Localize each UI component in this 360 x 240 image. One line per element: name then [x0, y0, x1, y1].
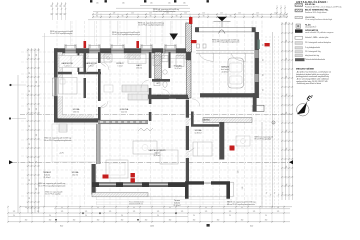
svg-text:90: 90	[56, 5, 58, 7]
svg-text:50 cm PF-01 aquaflopiramigloma: 50 cm PF-01 aquaflopiramiglomasite	[38, 184, 66, 187]
svg-text:90: 90	[51, 5, 53, 7]
svg-text:90: 90	[283, 16, 285, 18]
left wall window	[51, 78, 53, 96]
svg-text:90: 90	[263, 44, 265, 46]
svg-text:90: 90	[29, 125, 31, 127]
svg-text:8,10: 8,10	[60, 226, 63, 228]
svg-text:25 í hőszigetelt zsaluzó beépí: 25 í hőszigetelt zsaluzó beépítve	[305, 41, 331, 44]
svg-text:21,44 m2: 21,44 m2	[43, 177, 50, 179]
svg-text:125: 125	[220, 13, 223, 15]
right dimension lines	[272, 32, 274, 208]
svg-text:125: 125	[36, 161, 38, 164]
svg-text:125: 125	[256, 13, 259, 15]
section line A-A	[12, 161, 290, 163]
carport post left	[195, 27, 199, 32]
svg-text:90: 90	[96, 16, 98, 18]
svg-text:KÜLSŐ FAL: KÜLSŐ FAL	[305, 3, 316, 6]
interior wall bath divider x170	[169, 52, 171, 68]
wc room wall y79	[152, 79, 170, 82]
svg-text:FA-ÁB.: FA-ÁB.	[305, 24, 311, 27]
svg-text:360: 360	[73, 220, 76, 222]
stairs left wing	[59, 124, 67, 132]
svg-text:360: 360	[241, 220, 244, 222]
svg-text:90: 90	[263, 74, 265, 76]
svg-text:13,9 m2: 13,9 m2	[73, 111, 79, 113]
bed room1	[59, 78, 78, 95]
svg-text:- Felelősség nem érhető el oki: - Felelősség nem érhető el okirat	[296, 82, 322, 85]
svg-text:90: 90	[29, 72, 31, 74]
svg-text:125: 125	[113, 13, 116, 15]
entry side posts	[197, 44, 200, 48]
svg-text:11,2 m2: 11,2 m2	[121, 111, 127, 113]
svg-text:90: 90	[265, 215, 267, 217]
interior wall garderob divider	[78, 52, 80, 72]
svg-text:WC: WC	[156, 83, 160, 85]
red column marker 1	[84, 41, 87, 48]
svg-text:60: 60	[133, 207, 135, 209]
terrace right edge lines	[230, 181, 234, 183]
red column marker 2	[136, 41, 139, 48]
svg-text:H8 cm PF-01 aquaflopir: H8 cm PF-01 aquaflopir	[255, 139, 272, 141]
red badge top	[191, 40, 197, 43]
svg-text:90: 90	[257, 16, 259, 18]
svg-text:10 cm PF-01 aquaflopiramigloma: 10 cm PF-01 aquaflopiramiglomasite	[212, 41, 240, 44]
kitchen small box	[104, 85, 113, 92]
svg-text:35,96 m2: 35,96 m2	[153, 155, 160, 157]
sofa living	[106, 160, 128, 178]
svg-text:125: 125	[36, 188, 38, 191]
red marker vertical bottom	[131, 173, 135, 177]
roof slope arrow top	[170, 34, 179, 41]
roof overhang line top	[42, 36, 190, 38]
svg-text:21,44 m2: 21,44 m2	[173, 205, 180, 207]
svg-text:90: 90	[230, 16, 232, 18]
svg-text:MEGJEGYZÉSEK: MEGJEGYZÉSEK	[296, 68, 315, 71]
north compass	[297, 94, 313, 116]
bottom tiny arrows	[82, 213, 84, 215]
svg-text:90: 90	[64, 13, 66, 15]
svg-text:14,37 m2: 14,37 m2	[174, 68, 181, 70]
vertical wall x221 bottom wing	[219, 122, 224, 160]
svg-text:90: 90	[286, 22, 288, 24]
solid vertical line x262 lower	[261, 122, 263, 208]
svg-text:125: 125	[277, 211, 280, 213]
top dimension lines	[93, 11, 190, 13]
svg-text:talaj tömörített rtg: talaj tömörített rtg	[305, 54, 319, 57]
interior wall vertical x84	[84, 52, 87, 72]
svg-text:125: 125	[36, 108, 38, 111]
svg-text:90: 90	[60, 5, 62, 7]
svg-text:5,2 m2: 5,2 m2	[64, 65, 69, 67]
entrance arrow	[217, 17, 227, 21]
svg-text:125: 125	[168, 2, 171, 4]
top grid label marks	[90, 0, 92, 2]
left small dots	[9, 84, 11, 86]
svg-text:60: 60	[241, 207, 243, 209]
svg-text:60: 60	[169, 207, 171, 209]
svg-text:360: 360	[97, 220, 100, 222]
svg-text:90: 90	[286, 40, 288, 42]
svg-text:360: 360	[49, 220, 52, 222]
section marker left	[9, 160, 13, 164]
interior wall vertical x149	[149, 52, 152, 78]
svg-text:Vakolat 1,5MM + vakolat júlia: Vakolat 1,5MM + vakolat júlia	[305, 36, 328, 39]
terrace deck lines	[96, 199, 232, 201]
svg-text:125: 125	[133, 211, 136, 213]
eave line left vertical	[44, 33, 46, 207]
dining table	[133, 141, 157, 154]
east wall living room x187	[186, 100, 189, 183]
grid circle marker C right	[272, 121, 275, 124]
right dimension ticks	[281, 23, 282, 24]
red badge bottom left	[103, 175, 109, 179]
rotated dim text columns top-left	[52, 2, 54, 20]
svg-text:12,36 m2: 12,36 m2	[194, 132, 201, 134]
door leaf east wall	[189, 116, 194, 120]
svg-text:90: 90	[176, 16, 178, 18]
svg-text:KAMRA: KAMRA	[202, 118, 210, 121]
bottom small dark mark	[207, 224, 210, 227]
svg-text:14,6 m2: 14,6 m2	[136, 67, 142, 69]
svg-text:90: 90	[13, 215, 15, 217]
wc fixtures	[154, 82, 160, 86]
vertical grid axes	[56, 21, 58, 207]
red chimney marker	[189, 17, 192, 24]
svg-text:125: 125	[253, 211, 256, 213]
door swing arcs	[101, 62, 109, 70]
svg-text:125: 125	[205, 211, 208, 213]
svg-text:125: 125	[61, 211, 64, 213]
living room south wall with glass doors	[92, 183, 186, 187]
svg-text:360: 360	[145, 220, 148, 222]
svg-text:90: 90	[85, 215, 87, 217]
svg-text:125: 125	[36, 134, 38, 137]
svg-text:360: 360	[217, 220, 220, 222]
living room west lower wall	[92, 164, 96, 195]
garage door swing arcs	[199, 53, 214, 61]
glass door between piers	[204, 181, 211, 183]
svg-text:125: 125	[202, 13, 205, 15]
svg-text:125: 125	[109, 211, 112, 213]
svg-text:90: 90	[286, 112, 288, 114]
svg-text:125: 125	[96, 13, 99, 15]
top wall inner insulation leaf	[57, 53, 186, 58]
svg-text:360: 360	[25, 220, 28, 222]
svg-text:90: 90	[49, 215, 51, 217]
svg-text:360: 360	[265, 220, 268, 222]
entry canopy arc	[219, 30, 226, 34]
svg-text:2 rtg hidegburkolat: 2 rtg hidegburkolat	[305, 46, 320, 49]
left dimension lines	[17, 75, 19, 213]
svg-text:90: 90	[29, 54, 31, 56]
svg-text:60: 60	[205, 207, 207, 209]
svg-text:360: 360	[121, 220, 124, 222]
bed right wing szoba	[193, 142, 212, 156]
svg-text:90: 90	[122, 16, 124, 18]
svg-text:125: 125	[131, 13, 134, 15]
svg-text:125: 125	[150, 2, 153, 4]
svg-text:90: 90	[29, 161, 31, 163]
svg-text:90: 90	[286, 58, 288, 60]
left wall inner leaf	[58, 52, 63, 118]
svg-text:90: 90	[29, 143, 31, 145]
shower bath corner	[104, 54, 112, 62]
svg-text:125: 125	[181, 211, 184, 213]
door leaves x98 wall	[101, 63, 106, 67]
svg-text:360: 360	[193, 220, 196, 222]
hatched wall column bath x155	[155, 52, 162, 79]
svg-text:H8 cm PF-01 aquaflopiramigloma: H8 cm PF-01 aquaflopiramiglomasite	[227, 203, 255, 206]
bath fixtures	[153, 56, 160, 66]
living room west glazed wall	[97, 124, 101, 164]
bottom dimension lines	[20, 206, 292, 208]
svg-text:125: 125	[122, 2, 125, 4]
svg-text:90: 90	[29, 179, 31, 181]
left wing bottom wall	[54, 118, 98, 122]
terrace pier L right	[211, 181, 230, 199]
svg-text:90: 90	[29, 108, 31, 110]
window axis verticals above wall	[70, 21, 72, 46]
right dashed reference lines	[265, 36, 267, 208]
terrace edge band	[92, 193, 148, 197]
svg-text:60: 60	[25, 207, 27, 209]
svg-text:90: 90	[64, 5, 66, 7]
svg-text:90: 90	[60, 13, 62, 15]
svg-text:6,10: 6,10	[250, 226, 253, 228]
svg-text:360: 360	[169, 220, 172, 222]
outdoor table right wing	[236, 136, 250, 146]
svg-text:125: 125	[85, 211, 88, 213]
svg-text:90: 90	[150, 16, 152, 18]
svg-text:125: 125	[36, 54, 38, 57]
garage left wall chimney strip	[186, 23, 192, 52]
garage interior door track lines	[198, 54, 200, 93]
svg-text:90: 90	[286, 166, 288, 168]
red badge right	[265, 43, 270, 46]
svg-text:90: 90	[263, 59, 265, 61]
bottom dimension ticks	[7, 206, 9, 223]
svg-text:90: 90	[121, 215, 123, 217]
horizontal grid axes	[21, 51, 291, 53]
svg-text:125: 125	[13, 211, 16, 213]
kamra room walls	[191, 112, 194, 127]
left exterior wall outer leaf	[54, 49, 58, 122]
svg-text:22,08 m2: 22,08 m2	[221, 71, 228, 73]
svg-text:125: 125	[238, 13, 241, 15]
svg-text:50 cm PF-01 aquaflopiramiglom: 50 cm PF-01 aquaflopiramiglom	[153, 11, 176, 13]
top wall windows	[65, 44, 76, 46]
short top right tick columns	[276, 5, 278, 18]
legend rows	[295, 4, 303, 7]
svg-text:90: 90	[157, 215, 159, 217]
wardrobe hatch row room1	[59, 56, 83, 68]
svg-text:90: 90	[56, 13, 58, 15]
section marker right	[289, 160, 293, 164]
svg-text:90: 90	[193, 215, 195, 217]
glazed sliding band living room north	[98, 120, 148, 124]
garage right wall	[255, 32, 259, 98]
interior wall horizontal y72	[58, 72, 72, 75]
right wall step corner	[253, 93, 257, 111]
kitchen counters	[122, 85, 148, 92]
dimension extension droppers bottom	[67, 197, 69, 206]
svg-text:125: 125	[229, 211, 232, 213]
svg-text:25 í hőszigetelt 2rtg: 25 í hőszigetelt 2rtg	[305, 50, 321, 53]
svg-text:90: 90	[263, 89, 265, 91]
svg-text:90: 90	[203, 16, 205, 18]
zigzag fold mark living	[138, 128, 153, 131]
svg-text:125: 125	[157, 211, 160, 213]
svg-text:90: 90	[229, 215, 231, 217]
svg-text:BELSŐ TEHERHORDÓ FAL: BELSŐ TEHERHORDÓ FAL	[305, 9, 329, 12]
red marker right wing	[230, 146, 235, 151]
top exterior wall outer leaf	[54, 49, 186, 54]
svg-text:Térburkolat/térkőburkolat: Térburkolat/térkőburkolat	[305, 58, 325, 61]
top dimension ticks	[92, 13, 94, 18]
dimension extension droppers top	[100, 20, 102, 44]
left dimension ticks	[27, 49, 41, 51]
svg-text:VÁLASZFAL: VÁLASZFAL	[305, 16, 315, 19]
svg-text:60: 60	[61, 207, 63, 209]
svg-text:90: 90	[286, 76, 288, 78]
svg-text:125: 125	[37, 211, 40, 213]
svg-text:2,40: 2,40	[242, 186, 244, 189]
axis line mid	[20, 114, 292, 116]
svg-text:7,1 m2: 7,1 m2	[117, 65, 122, 67]
svg-text:50 cm PF-01 aquaflop: 50 cm PF-01 aquaflop	[45, 194, 61, 196]
svg-text:1,50: 1,50	[238, 170, 240, 173]
garage south wall	[147, 95, 188, 99]
svg-text:90: 90	[29, 197, 31, 199]
svg-text:GIPSZKARTON: GIPSZKARTON	[305, 29, 319, 32]
left terrace outline	[52, 124, 98, 162]
svg-text:50 cm PF-01 aquaflopiramigloma: 50 cm PF-01 aquaflopiramiglomasite	[44, 139, 72, 142]
garage doors front thin lines	[196, 50, 254, 52]
svg-text:90: 90	[29, 90, 31, 92]
car outline in garage	[228, 58, 244, 88]
bed halo room	[128, 54, 146, 64]
svg-text:125: 125	[96, 2, 99, 4]
svg-text:14,35: 14,35	[150, 226, 154, 228]
interior wall horizontal y97 hall south	[149, 96, 169, 99]
svg-text:60: 60	[97, 207, 99, 209]
carport beam	[196, 28, 255, 32]
hatched band right wing y120	[203, 118, 252, 123]
carport post right	[252, 27, 256, 32]
svg-text:90: 90	[51, 13, 53, 15]
svg-text:16,2 m2: 16,2 m2	[72, 174, 78, 176]
svg-text:125: 125	[149, 13, 152, 15]
svg-text:125: 125	[184, 13, 187, 15]
svg-text:4,1 m2: 4,1 m2	[156, 97, 161, 99]
terrace pier L left	[185, 181, 204, 199]
svg-text:50 cm PF-01 aquaflopiramiglom: 50 cm PF-01 aquaflopiramiglom	[50, 33, 73, 35]
interior wall vertical x98	[98, 52, 101, 63]
svg-text:4,8 m2: 4,8 m2	[88, 65, 93, 67]
svg-text:60: 60	[277, 207, 279, 209]
svg-text:125: 125	[183, 2, 186, 4]
